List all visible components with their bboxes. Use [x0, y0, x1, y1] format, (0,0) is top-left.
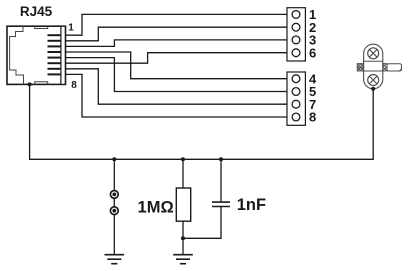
terminal 5 screw — [292, 88, 300, 96]
wire GDT to ground — [113, 215, 115, 255]
node junction resistor — [181, 157, 185, 161]
wire shield to ground bus — [30, 84, 374, 159]
pin 8 contact — [48, 73, 62, 75]
gas discharge tube F1 electrode A — [110, 191, 118, 199]
clamp arm corner detail — [398, 68, 401, 71]
shield clamp device body — [364, 44, 383, 89]
gas discharge tube F1 electrode B — [110, 207, 118, 215]
wire pin3 to terminal 3 — [66, 40, 288, 47]
terminal 8 screw — [292, 113, 300, 121]
screw top circled X — [368, 48, 379, 59]
pin 1 contact — [48, 34, 62, 36]
svg-text:6: 6 — [309, 46, 316, 61]
terminal 6 screw — [292, 49, 300, 57]
wire bus to GDT — [113, 159, 115, 190]
node clamp to bus — [371, 87, 375, 91]
wire GDT electrodes link — [113, 198, 115, 206]
pin 4 contact — [48, 51, 62, 53]
pin 7 contact — [48, 68, 62, 70]
connector J1 RJ45 jack body — [7, 26, 66, 84]
terminal 4 screw — [292, 75, 300, 83]
wire capacitor to resistor bottom node — [183, 207, 221, 239]
wire pin2 to terminal 2 — [66, 27, 288, 41]
RJ45 latch recess contour — [10, 26, 24, 84]
ground symbol under resistor — [173, 255, 193, 264]
wire resistor to ground — [182, 221, 184, 255]
clamp left hatched foot — [357, 64, 363, 71]
svg-text:1nF: 1nF — [237, 196, 266, 214]
pin 3 contact — [48, 45, 62, 47]
wire bus to capacitor — [220, 159, 222, 202]
svg-text:RJ45: RJ45 — [20, 4, 53, 19]
RJ45 contact bar — [61, 26, 65, 84]
pin 6 contact — [48, 62, 62, 64]
wire pin7 to terminal 7 — [66, 69, 288, 104]
ground symbol under GDT — [105, 255, 125, 264]
node shield on jack bottom — [28, 82, 32, 86]
wire pin1 to terminal 1 — [66, 14, 288, 35]
svg-text:1: 1 — [68, 23, 74, 34]
RJ45 top tab notch — [35, 26, 48, 28]
terminal 7 screw — [292, 100, 300, 108]
svg-text:8: 8 — [71, 80, 77, 91]
terminal block X2 (pins 4,5,7,8) — [287, 72, 305, 125]
terminal 2 screw — [292, 23, 300, 31]
svg-text:1MΩ: 1MΩ — [138, 198, 174, 216]
RJ45 bottom tab notch — [35, 82, 48, 85]
svg-text:8: 8 — [309, 110, 316, 125]
terminal 1 screw — [292, 11, 300, 19]
wire pin4 to terminal 4 — [66, 52, 288, 79]
clamp right arm — [387, 64, 402, 71]
node junction GDT — [112, 157, 116, 161]
terminal block X1 (pins 1,2,3,6) — [287, 8, 305, 61]
resistor R1 1M ohm — [176, 188, 190, 221]
wire pin5 to terminal 5 — [66, 58, 288, 92]
wire bus to resistor — [182, 159, 184, 188]
node junction resistor-capacitor bottom — [181, 236, 185, 240]
pin 5 contact — [48, 57, 62, 59]
clamp cross band — [364, 61, 383, 71]
node junction capacitor — [219, 157, 223, 161]
wire pin8 to terminal 8 — [66, 74, 288, 117]
clamp right hatched block — [383, 64, 387, 71]
pin 2 contact — [48, 40, 62, 42]
terminal 3 screw — [292, 36, 300, 44]
capacitor C1 1nF — [212, 202, 230, 206]
wire pin6 to terminal 6 — [66, 53, 288, 64]
screw bottom circled X — [368, 75, 379, 86]
